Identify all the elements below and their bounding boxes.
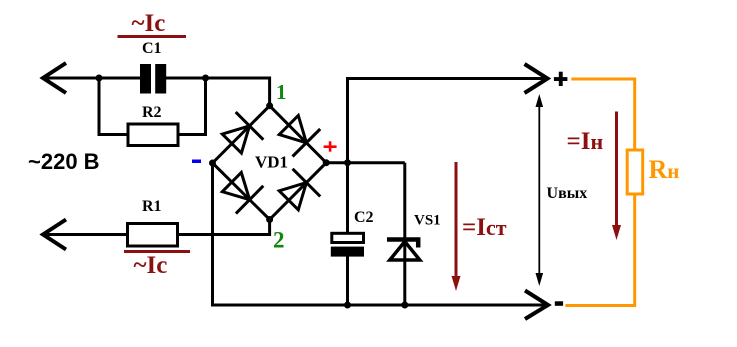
zener VS1 cathode bar	[387, 240, 418, 248]
svg-text:Rн: Rн	[649, 155, 680, 184]
plus output label	[554, 77, 568, 81]
wire R1 to bridge node 2	[178, 220, 270, 235]
svg-text:~Ic: ~Ic	[132, 10, 166, 37]
svg-text:R2: R2	[142, 104, 162, 121]
plus label red	[324, 145, 337, 148]
svg-text:1: 1	[276, 80, 287, 104]
diode VD1 bottom-left	[222, 173, 249, 200]
svg-text:Uвых: Uвых	[547, 185, 588, 202]
wire R2 parallel loop	[99, 78, 128, 135]
wire up from plus junction to top rail	[348, 79, 548, 234]
current arrow =Iн	[615, 112, 618, 233]
junction C2 bottom	[344, 302, 351, 309]
junction at plus vertical	[344, 159, 351, 166]
node plus junction	[323, 159, 330, 166]
wire minus node down to bottom rail	[211, 163, 214, 305]
bottom rail wire	[211, 304, 548, 307]
node junction top-left	[96, 75, 103, 82]
orange load wire bottom	[565, 194, 634, 306]
wire bottom-left from input arrow to R1	[43, 233, 128, 236]
svg-text:C2: C2	[354, 209, 374, 226]
node junction top-right of C1	[202, 75, 209, 82]
Uвых double arrow	[538, 100, 540, 281]
svg-text:~220 В: ~220 В	[28, 149, 100, 174]
capacitor C2 bottom plate	[331, 247, 364, 257]
node 1 junction	[266, 102, 273, 109]
wire plus node to C2/VS1 branch	[326, 161, 405, 164]
diode VD1 bottom-right	[279, 183, 306, 210]
wire C1 to corner above bridge node 1	[166, 78, 270, 106]
wire C2 bottom to rail	[346, 257, 349, 306]
underline of ~Ic bottom	[124, 250, 190, 253]
svg-text:=Iст: =Iст	[462, 214, 507, 241]
svg-text:=Iн: =Iн	[567, 128, 604, 155]
zener VS1 triangle	[390, 242, 420, 261]
svg-text:VS1: VS1	[414, 213, 441, 229]
wire VS1 vertical	[403, 163, 406, 305]
diode VD1 top-left	[222, 126, 249, 153]
resistor Rн	[627, 150, 643, 194]
svg-text:VD1: VD1	[255, 153, 288, 172]
bridge diamond arms VD1	[213, 106, 327, 220]
minus label blue	[192, 160, 201, 164]
svg-text:R1: R1	[142, 198, 162, 215]
input arrow top (left-pointing)	[43, 63, 66, 93]
input arrow bottom (left-pointing)	[43, 220, 66, 250]
capacitor C1 plates	[140, 64, 151, 94]
resistor R1	[128, 224, 178, 247]
underline of ~Ic top	[118, 35, 187, 38]
output arrow top (right-pointing)	[525, 64, 548, 93]
current arrow =Iст	[455, 162, 458, 283]
capacitor C2 top plate	[332, 233, 364, 242]
svg-text:~Ic: ~Ic	[134, 252, 168, 279]
orange load wire top	[571, 79, 634, 150]
minus output label	[555, 301, 563, 306]
svg-text:C1: C1	[142, 40, 162, 57]
output arrow bottom (right-pointing)	[525, 291, 548, 320]
svg-text:2: 2	[273, 228, 285, 253]
diode VD1 top-right	[279, 116, 306, 143]
node minus junction	[209, 160, 216, 167]
node 2 junction	[266, 216, 273, 223]
wire top-left from input arrow to C1	[43, 77, 140, 80]
junction VS1 bottom	[401, 302, 408, 309]
resistor R2	[128, 124, 178, 146]
